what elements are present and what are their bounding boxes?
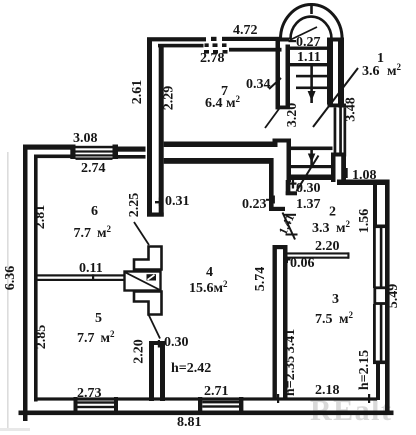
stove niche upper bracket — [134, 247, 162, 270]
window W6 thin lines — [373, 304, 376, 361]
window W5 thin lines — [373, 228, 376, 288]
svg-text:2.78: 2.78 — [200, 51, 225, 66]
staircase door threshold line (0.27 entry) — [290, 47, 328, 50]
tick 0.30 stair — [289, 183, 297, 185]
svg-text:7.7 м2: 7.7 м2 — [74, 224, 112, 241]
window W1 bottom below room5 — [74, 397, 119, 411]
staircase enclosure left wall outer line — [276, 38, 281, 110]
wire top-wall-room6-inner-line — [34, 155, 71, 159]
tick 0.27 — [289, 40, 297, 42]
svg-text:8.81: 8.81 — [177, 415, 202, 430]
faint scan artifact line left margin — [7, 152, 9, 430]
arc canopy outer — [281, 4, 343, 39]
svg-text:3.20: 3.20 — [285, 103, 300, 128]
tick 0.06 — [284, 259, 291, 261]
wire lower-flight left wall — [287, 139, 292, 183]
stove — [125, 272, 161, 291]
staircase enclosure left wall inner line — [286, 45, 291, 106]
svg-text:5.49: 5.49 — [386, 284, 401, 309]
wall room4|rooms2-3: top cap — [273, 245, 288, 249]
wire left-outer-wall-inner-line — [34, 155, 38, 402]
staircase divider upper — [310, 64, 313, 103]
leader to upper bracket — [134, 222, 149, 245]
svg-text:2.71: 2.71 — [204, 384, 229, 399]
staircase enclosure top left stub — [276, 38, 290, 42]
svg-text:1.56: 1.56 — [357, 209, 372, 234]
wall room4|rooms2-3: left line — [273, 245, 277, 400]
svg-text:h=2.35: h=2.35 — [283, 356, 298, 396]
staircase right wall outer line — [338, 38, 344, 108]
diagonal dimension 1.41 — [283, 213, 296, 240]
svg-text:2.25: 2.25 — [127, 193, 142, 218]
window W4 sill cap bottom — [331, 153, 346, 157]
right outer wall outer line — [385, 180, 390, 415]
wire wall-room6-room4 end cap — [147, 213, 164, 217]
svg-text:1.11: 1.11 — [297, 50, 321, 65]
svg-text:3.08: 3.08 — [73, 131, 98, 146]
window W4 thin lines — [334, 107, 337, 152]
svg-text:0.27: 0.27 — [296, 35, 321, 50]
wire room7 top wall lower dash row — [204, 50, 209, 54]
wire room4-top-wall upper line — [164, 142, 277, 148]
wire bottom-wall-outer-line — [19, 411, 394, 416]
svg-text:1.08: 1.08 — [352, 168, 377, 183]
wire jog horizontal top — [273, 139, 292, 143]
svg-text:3: 3 — [332, 292, 339, 307]
svg-text:3.41: 3.41 — [283, 329, 298, 354]
wire jog up to stair: vertical — [273, 139, 278, 148]
svg-text:0.23: 0.23 — [242, 197, 267, 212]
svg-text:0.30: 0.30 — [296, 181, 321, 196]
stair bottom wall — [287, 175, 332, 181]
wire room7 top wall outer line — [147, 37, 206, 41]
staircase arrow upper — [308, 91, 316, 101]
tick 0.30 room5 door — [156, 343, 163, 345]
svg-text:0.30: 0.30 — [164, 335, 189, 350]
wall room5|room4 below door 0.30 — [149, 341, 154, 401]
svg-text:2: 2 — [329, 205, 336, 220]
svg-text:0.11: 0.11 — [79, 261, 103, 276]
svg-text:4.72: 4.72 — [233, 23, 258, 38]
svg-text:3.6 м2: 3.6 м2 — [362, 62, 402, 79]
wire stair-exit jamb — [286, 180, 291, 195]
svg-text:3.3 м2: 3.3 м2 — [312, 219, 351, 236]
svg-text:2.20: 2.20 — [132, 339, 147, 364]
svg-text:5.74: 5.74 — [253, 267, 268, 292]
window W5 right wall cap top — [373, 225, 390, 229]
svg-text:h=2.15: h=2.15 — [357, 350, 372, 390]
svg-text:2.85: 2.85 — [34, 325, 49, 350]
tick 0.34 — [269, 78, 281, 89]
window W6 cap bottom — [373, 361, 390, 365]
svg-text:2.73: 2.73 — [77, 386, 102, 401]
svg-text:4: 4 — [206, 265, 213, 280]
wire room7 top wall inner line — [158, 44, 204, 48]
wire room4-top-wall lower line — [164, 158, 273, 164]
staircase right wall inner line — [327, 38, 333, 105]
svg-text:2.81: 2.81 — [33, 205, 48, 230]
svg-text:2.20: 2.20 — [315, 239, 340, 254]
tick 0.31 — [155, 201, 162, 203]
svg-text:0.34: 0.34 — [246, 77, 271, 92]
partition room2|room3 (0.06) — [287, 252, 349, 254]
leader 0.34 — [265, 108, 280, 129]
svg-text:6.4 м2: 6.4 м2 — [205, 94, 241, 111]
leader to lower bracket — [149, 315, 161, 339]
arc canopy inner — [291, 17, 332, 39]
wire wall-room6-room4 vertical — [147, 38, 152, 217]
pier box on right wall — [375, 288, 388, 304]
staircase enclosure left wall end cap — [276, 106, 291, 110]
svg-text:2.29: 2.29 — [162, 86, 177, 111]
wire room4 right wall upper segment — [269, 158, 274, 211]
window W3 top of room6 — [70, 145, 118, 160]
right wall lower segment inner line — [376, 364, 380, 400]
staircase enclosure top right stub — [327, 38, 344, 42]
stove niche lower bracket — [134, 292, 162, 315]
faint scan artifact bottom-left — [0, 428, 30, 431]
staircase divider lower — [310, 147, 313, 166]
arc apex tick — [310, 3, 313, 14]
wire left-outer-wall-outer-line — [23, 145, 28, 422]
tick 0.23 — [266, 199, 273, 201]
staircase arrow lower — [308, 154, 316, 163]
svg-text:15.6м2: 15.6м2 — [189, 279, 228, 296]
wall below window W4 hollow — [331, 157, 336, 183]
tick 1.08 — [346, 168, 348, 178]
leader stair exit door — [297, 156, 319, 192]
right outer wall inner line (1.56 segment) — [373, 185, 377, 225]
svg-text:6.36: 6.36 — [3, 266, 18, 291]
wall room4|rooms2-3: right line — [283, 245, 288, 400]
svg-text:2.18: 2.18 — [315, 383, 340, 398]
window W2 bottom below room4 — [198, 397, 243, 411]
svg-text:3.48: 3.48 — [344, 97, 359, 122]
svg-text:7.7 м2: 7.7 м2 — [77, 329, 115, 346]
staircase lower flight lines — [289, 147, 333, 151]
window W4 stair right wall: sill cap top — [328, 104, 347, 108]
wire room4 right wall foot — [269, 207, 285, 211]
ticks 2.18 — [277, 394, 279, 403]
svg-text:1.37: 1.37 — [296, 197, 321, 212]
svg-text:6: 6 — [91, 204, 98, 219]
leader room1 label — [313, 68, 358, 127]
svg-text:2.61: 2.61 — [130, 80, 145, 105]
svg-text:0.06: 0.06 — [290, 256, 315, 271]
wire bottom-wall-inner-line-left — [34, 397, 377, 400]
svg-text:5: 5 — [95, 311, 102, 326]
svg-text:h=2.42: h=2.42 — [171, 361, 211, 376]
wire top-wall-room6-outer-line — [23, 145, 71, 150]
svg-text:2.74: 2.74 — [81, 161, 106, 176]
room2 top wall — [337, 180, 390, 186]
svg-text:0.31: 0.31 — [165, 194, 190, 209]
staircase upper flight treads — [290, 63, 328, 66]
leader 0.27 — [290, 27, 317, 40]
svg-text:7.5 м2: 7.5 м2 — [315, 310, 354, 327]
partition room6|room5 (0.11) — [38, 274, 126, 276]
